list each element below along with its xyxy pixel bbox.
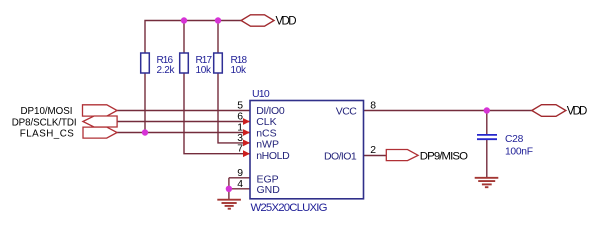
- svg-text:GND: GND: [257, 184, 281, 196]
- wire FLASH_CS to pin 1: [117, 132, 250, 134]
- svg-text:nWP: nWP: [256, 139, 279, 151]
- port flag DP8/SCLK/TDI: [83, 116, 117, 127]
- svg-text:nCS: nCS: [256, 127, 276, 139]
- svg-text:C28: C28: [505, 134, 524, 145]
- svg-text:10k: 10k: [231, 65, 248, 76]
- label R18 value: [231, 55, 248, 76]
- port flag FLASH_CS: [83, 127, 117, 138]
- wire EGP-GND vertical to ground: [228, 178, 230, 199]
- wire EGP pin 9: [229, 177, 250, 179]
- ground GND net: [217, 200, 241, 209]
- wire DO/IO1 pin 2 to DP9/MISO: [364, 155, 387, 157]
- svg-text:100nF: 100nF: [505, 147, 533, 158]
- svg-text:DP9/MISO: DP9/MISO: [420, 150, 468, 162]
- label C28 value: [505, 134, 533, 158]
- junction dot R18 top rail: [215, 17, 221, 23]
- svg-text:2.2k: 2.2k: [157, 65, 176, 76]
- input arrow pin 3: [243, 140, 250, 147]
- wire C28 bottom to ground: [486, 140, 488, 177]
- port flag DP10/MOSI: [83, 105, 118, 116]
- svg-text:DP8/SCLK/TDI: DP8/SCLK/TDI: [12, 117, 77, 128]
- svg-text:8: 8: [370, 101, 376, 112]
- svg-text:10k: 10k: [196, 65, 213, 76]
- wire VCC pin 8 to VDD: [364, 110, 532, 112]
- svg-text:FLASH_CS: FLASH_CS: [20, 129, 74, 140]
- svg-text:nHOLD: nHOLD: [256, 150, 290, 162]
- resistor R17: [180, 53, 189, 73]
- wire C28 top: [486, 111, 488, 135]
- junction dot R17 top rail: [181, 17, 187, 23]
- ground C28: [475, 178, 499, 187]
- input arrow pin 1: [243, 129, 250, 136]
- wire R17 top: [183, 21, 185, 54]
- wire DP8/SCLK/TDI to pin 6: [117, 121, 250, 123]
- svg-text:4: 4: [237, 179, 243, 190]
- wire GND pin 4: [229, 188, 250, 190]
- resistor R18: [214, 53, 223, 73]
- port flag DP9/MISO: [386, 150, 418, 161]
- svg-text:5: 5: [237, 101, 243, 112]
- resistor R16: [141, 53, 150, 73]
- capacitor C28: [477, 135, 497, 139]
- svg-text:DO/IO1: DO/IO1: [324, 151, 357, 163]
- label R17 value: [196, 55, 213, 76]
- svg-text:DI/IO0: DI/IO0: [256, 105, 285, 117]
- wire R16 bottom to FLASH_CS net: [144, 73, 146, 133]
- wire DP10/MOSI to pin 5: [117, 110, 250, 112]
- svg-text:1: 1: [237, 123, 243, 134]
- junction dot FLASH_CS / R16: [142, 129, 148, 135]
- svg-text:W25X20CLUXIG: W25X20CLUXIG: [251, 202, 328, 214]
- wire R17 bottom to nHOLD pin 7: [184, 73, 250, 154]
- op chip U10 body: [250, 101, 364, 199]
- svg-text:7: 7: [237, 144, 243, 155]
- svg-text:3: 3: [237, 133, 243, 144]
- svg-text:6: 6: [237, 112, 243, 123]
- input arrow pin 7: [243, 150, 250, 157]
- junction dot VCC / C28: [484, 107, 490, 113]
- svg-text:VDD: VDD: [567, 106, 588, 118]
- wire VDD rail top: [145, 21, 241, 54]
- input arrow pin 6: [243, 118, 250, 125]
- svg-text:DP10/MOSI: DP10/MOSI: [21, 106, 73, 117]
- svg-text:U10: U10: [252, 88, 270, 100]
- power symbol VDD top: [241, 15, 274, 26]
- svg-text:CLK: CLK: [256, 116, 276, 128]
- wire R18 bottom to nWP pin 3: [218, 73, 250, 143]
- junction dot GND net: [226, 186, 232, 192]
- svg-text:2: 2: [370, 145, 376, 156]
- power symbol VDD right: [532, 105, 566, 117]
- svg-text:9: 9: [237, 168, 243, 179]
- svg-text:VCC: VCC: [336, 105, 357, 117]
- label R16 value: [157, 55, 176, 76]
- svg-text:VDD: VDD: [276, 16, 297, 28]
- wire R18 top: [217, 21, 219, 54]
